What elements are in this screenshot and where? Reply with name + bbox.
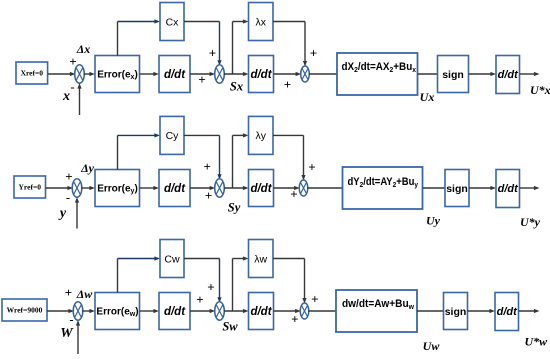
wire w: &#955;w output to corner xyxy=(273,258,305,260)
label Delta w (error signal, row w) xyxy=(76,287,94,301)
label + (left input, summing junction 3, row x) xyxy=(284,77,291,92)
svg-text:+: + xyxy=(203,159,210,174)
svg-text:Sw: Sw xyxy=(222,320,238,334)
wire y: Cy output to corner xyxy=(184,134,220,136)
svg-text:+: + xyxy=(290,187,297,202)
wire w: pickoff up to &#955;w xyxy=(232,259,234,312)
summing junction 2 (sliding surface Sx, row x) xyxy=(215,65,225,83)
svg-text:sign: sign xyxy=(445,306,467,318)
svg-text:Sy: Sy xyxy=(228,201,241,215)
block d/dt (output derivative, row x) xyxy=(496,56,520,94)
label + (top input, summing junction 3, row y) xyxy=(308,160,315,175)
label + (reference input sign, row y) xyxy=(65,169,72,184)
block Yref=0 (reference input) xyxy=(14,176,46,198)
wire x: summing junction to Error block xyxy=(84,72,96,76)
wire w: reference to summing junction xyxy=(47,309,74,313)
label + (reference input sign, row w) xyxy=(65,285,72,300)
svg-text:U*x: U*x xyxy=(530,83,550,97)
svg-text:y: y xyxy=(58,206,67,221)
svg-text:Xref=0: Xref=0 xyxy=(21,69,44,78)
label x (measured signal, row x) xyxy=(62,89,70,104)
label U*w (output) xyxy=(525,335,549,349)
wire x: second d/dt to summing junction 3 xyxy=(274,72,302,76)
wire x: summing junction 2 to second d/dt xyxy=(224,72,249,76)
wire y: summing junction 2 to second d/dt xyxy=(224,186,249,190)
wire y: measured signal input from below xyxy=(75,197,79,229)
wire y: reference to summing junction xyxy=(46,186,74,190)
block d/dt (output derivative, row w) xyxy=(495,293,519,331)
label Delta y (error signal, row y) xyxy=(80,161,95,175)
label + (top input, summing junction 2, row y) xyxy=(203,159,210,174)
summing junction 3 (row y) xyxy=(299,180,308,196)
label + (top input, summing junction 3, row w) xyxy=(311,292,318,307)
block Error(ey) xyxy=(95,170,140,207)
block d/dt (second derivative, row x) xyxy=(249,56,274,93)
svg-text:W: W xyxy=(60,326,74,341)
label + (reference input sign, row x) xyxy=(69,54,76,69)
block dw/dt=Aw+Buw (state equation) xyxy=(336,290,417,332)
wire y: &#955;y output to corner xyxy=(273,134,304,136)
label Sx (sliding surface) xyxy=(230,80,243,94)
svg-text:Sx: Sx xyxy=(230,80,243,94)
svg-text:+: + xyxy=(65,285,72,300)
label + (top input, summing junction 2, row w) xyxy=(207,280,214,295)
svg-text:+: + xyxy=(205,188,212,203)
svg-text:Wref=9000: Wref=9000 xyxy=(7,306,43,315)
label + (left input, summing junction 2, row w) xyxy=(196,292,203,307)
svg-text:+: + xyxy=(198,72,205,87)
block Xref=0 (reference input) xyxy=(16,62,48,84)
svg-text:Δw: Δw xyxy=(76,287,94,301)
block d/dt (first derivative, row w) xyxy=(159,293,190,330)
svg-text:sign: sign xyxy=(442,69,464,81)
label + (left input, summing junction 3, row w) xyxy=(291,312,298,327)
wire y: d/dt to summing junction 2 xyxy=(190,186,215,190)
svg-text:dY2/dt=AY2+Buy: dY2/dt=AY2+Buy xyxy=(348,176,419,189)
svg-text:+: + xyxy=(308,160,315,175)
wire w: pickoff from Error block top xyxy=(117,259,119,293)
svg-text:d/dt: d/dt xyxy=(164,183,186,195)
wire y: pickoff up to &#955;y xyxy=(232,135,234,188)
wire x: summing junction 3 to state equation block xyxy=(309,73,337,75)
svg-text:λw: λw xyxy=(254,253,267,265)
svg-text:d/dt: d/dt xyxy=(250,69,272,81)
label - (feedback input sign, row w) xyxy=(70,313,74,327)
label - (feedback input sign, row x) xyxy=(71,80,75,94)
wire x: d/dt to summing junction 2 xyxy=(190,72,215,76)
block &#955;x (switching gain) xyxy=(249,3,274,41)
svg-text:+: + xyxy=(310,46,317,61)
svg-text:Cw: Cw xyxy=(164,253,180,265)
svg-text:d/dt: d/dt xyxy=(250,306,272,318)
block dY2/dt=AY2+Buy (state equation) xyxy=(343,167,423,209)
wire y: summing junction to Error block xyxy=(81,186,95,190)
wire x: &#955;x output down into summing junction 3 xyxy=(303,22,307,67)
block dX2/dt=AX2+Bux (state equation) xyxy=(337,53,418,95)
svg-text:+: + xyxy=(291,312,298,327)
label + (left input, summing junction 2, row y) xyxy=(205,188,212,203)
svg-text:+: + xyxy=(65,169,72,184)
block &#955;w (switching gain) xyxy=(249,240,274,278)
wire y: into Cy block (navy) xyxy=(118,133,161,137)
summing junction 2 (sliding surface Sy, row y) xyxy=(215,179,225,197)
wire x: state equation block to sign block xyxy=(418,73,438,75)
wire y: Cy output down into summing junction 2 (navy) xyxy=(217,135,221,179)
svg-text:+: + xyxy=(311,292,318,307)
svg-text:Δy: Δy xyxy=(80,161,95,175)
wire w: &#955;w output down into summing junction 3 xyxy=(302,259,306,304)
wire x: measured signal input from below xyxy=(77,83,81,115)
block d/dt (output derivative, row y) xyxy=(496,170,520,208)
svg-text:d/dt: d/dt xyxy=(164,69,186,81)
svg-text:d/dt: d/dt xyxy=(164,306,186,318)
label + (top input, summing junction 2, row x) xyxy=(209,46,216,61)
wire x: Error block to d/dt xyxy=(140,72,160,76)
block Wref=9000 (reference input) xyxy=(2,299,47,321)
block d/dt (second derivative, row y) xyxy=(249,170,274,207)
svg-text:Cx: Cx xyxy=(166,16,180,28)
svg-text:Ux: Ux xyxy=(420,90,435,104)
wire y: second d/dt to summing junction 3 xyxy=(274,186,300,190)
block d/dt (first derivative, row y) xyxy=(159,170,190,207)
label Sy (sliding surface) xyxy=(228,201,241,215)
wire w: state equation block to sign block xyxy=(417,310,444,312)
label Uw (control node) xyxy=(423,339,441,353)
block sign (row x) xyxy=(438,56,469,93)
wire y: Error block to d/dt xyxy=(140,186,160,190)
wire w: second d/dt to summing junction 3 xyxy=(274,309,301,313)
wire y: sign block to output d/dt xyxy=(469,186,496,190)
svg-text:+: + xyxy=(284,77,291,92)
summing junction 1 (error comparator, row x) xyxy=(75,65,85,83)
wire x: pickoff from Error block top xyxy=(117,22,119,56)
wire w: Cw output down into summing junction 2 (navy) xyxy=(217,259,221,303)
wire y: output arrow xyxy=(520,186,540,190)
svg-text:Yref=0: Yref=0 xyxy=(19,183,42,192)
wire y: pickoff from Error block top xyxy=(117,135,119,169)
block d/dt (second derivative, row w) xyxy=(249,293,274,330)
block sign (row y) xyxy=(445,170,469,207)
svg-text:-: - xyxy=(71,80,75,94)
wire y: &#955;y output down into summing junction 3 xyxy=(301,135,305,180)
wire w: into Cw block (navy) xyxy=(118,256,161,260)
svg-text:U*y: U*y xyxy=(520,215,541,229)
wire w: summing junction 2 to second d/dt xyxy=(224,309,249,313)
summing junction 3 (row w) xyxy=(300,303,309,319)
svg-text:d/dt: d/dt xyxy=(498,69,519,81)
wire w: d/dt to summing junction 2 xyxy=(190,309,215,313)
wire x: Cx output down into summing junction 2 (navy) xyxy=(217,22,221,66)
label U*y (output) xyxy=(520,215,541,229)
svg-text:+: + xyxy=(207,280,214,295)
svg-text:Cy: Cy xyxy=(166,130,180,142)
svg-text:x: x xyxy=(62,89,70,104)
label + (top input, summing junction 3, row x) xyxy=(310,46,317,61)
label Delta x (error signal, row x) xyxy=(76,42,91,56)
block &#955;y (switching gain) xyxy=(249,116,274,154)
label U*x (output) xyxy=(530,83,550,97)
svg-text:+: + xyxy=(196,292,203,307)
svg-text:sign: sign xyxy=(446,183,468,195)
label y (measured signal, row y) xyxy=(58,206,67,221)
wire w: summing junction 3 to state equation block xyxy=(308,310,336,312)
svg-text:λx: λx xyxy=(255,16,266,28)
summing junction 2 (sliding surface Sw, row w) xyxy=(215,302,225,320)
block Error(ew) xyxy=(95,293,140,330)
svg-text:dX2/dt=AX2+Bux: dX2/dt=AX2+Bux xyxy=(342,61,417,74)
block d/dt (first derivative, row x) xyxy=(159,56,190,93)
wire w: Cw output to corner xyxy=(184,258,220,260)
label + (left input, summing junction 3, row y) xyxy=(290,187,297,202)
wire x: reference to summing junction xyxy=(48,72,76,76)
wire x: output arrow xyxy=(520,72,540,76)
svg-text:-: - xyxy=(70,313,74,327)
wire x: sign block to output d/dt xyxy=(469,72,497,76)
wire y: into &#955;y block xyxy=(233,133,249,137)
wire w: output arrow xyxy=(519,309,540,313)
wire x: into Cx block (navy) xyxy=(118,19,161,23)
wire x: pickoff up to &#955;x xyxy=(232,22,234,75)
label W (measured signal, row w) xyxy=(60,326,74,341)
svg-text:+: + xyxy=(209,46,216,61)
block Cy (sliding-surface gain) xyxy=(160,116,184,154)
block Cw (sliding-surface gain) xyxy=(160,240,184,278)
wire x: Cx output to corner xyxy=(184,21,220,23)
label Uy (control node) xyxy=(426,214,441,228)
wire x: into &#955;x block xyxy=(233,19,249,23)
label Sw (sliding surface) xyxy=(222,320,238,334)
summing junction 1 (error comparator, row y) xyxy=(72,179,82,197)
svg-text:Uw: Uw xyxy=(423,339,441,353)
wire x: &#955;x output to corner xyxy=(273,21,305,23)
svg-text:Uy: Uy xyxy=(426,214,441,228)
wire w: sign block to output d/dt xyxy=(468,309,496,313)
svg-text:+: + xyxy=(69,54,76,69)
wire w: summing junction to Error block xyxy=(82,309,95,313)
block Cx (sliding-surface gain) xyxy=(160,3,184,41)
svg-text:Δx: Δx xyxy=(76,42,91,56)
wire w: into &#955;w block xyxy=(233,256,249,260)
svg-text:-: - xyxy=(66,191,70,205)
svg-text:U*w: U*w xyxy=(525,335,549,349)
svg-text:d/dt: d/dt xyxy=(497,306,518,318)
svg-text:d/dt: d/dt xyxy=(498,183,519,195)
label - (feedback input sign, row y) xyxy=(66,191,70,205)
wire w: Error block to d/dt xyxy=(140,309,160,313)
wire y: summing junction 3 to state equation block xyxy=(307,187,342,189)
block Error(ex) xyxy=(95,56,140,93)
label Ux (control node) xyxy=(420,90,435,104)
svg-text:d/dt: d/dt xyxy=(250,183,272,195)
wire w: measured signal input from below xyxy=(76,320,80,354)
svg-text:dw/dt=Aw+Buw: dw/dt=Aw+Buw xyxy=(342,298,414,311)
summing junction 3 (row x) xyxy=(301,66,310,82)
svg-text:λy: λy xyxy=(255,130,266,142)
block sign (row w) xyxy=(444,293,468,330)
summing junction 1 (error comparator, row w) xyxy=(73,302,83,320)
wire y: state equation block to sign block xyxy=(423,187,446,189)
label + (left input, summing junction 2, row x) xyxy=(198,72,205,87)
